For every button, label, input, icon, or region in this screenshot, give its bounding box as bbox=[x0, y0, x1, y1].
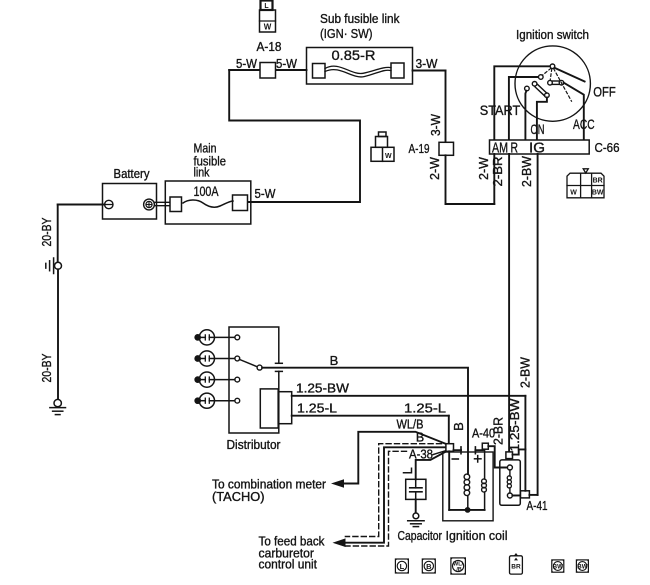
svg-text:Ignition switch: Ignition switch bbox=[516, 27, 589, 42]
wire-end symbol BW (left) bbox=[552, 560, 564, 572]
wire 2-W from A-19 down bbox=[445, 155, 447, 204]
svg-text:2-BW: 2-BW bbox=[518, 356, 533, 388]
svg-text:C-66: C-66 bbox=[595, 140, 620, 155]
wire-end symbol BW (right) bbox=[576, 560, 588, 572]
svg-text:W: W bbox=[570, 190, 577, 197]
body ground node (mid) bbox=[55, 262, 62, 269]
svg-text:100A: 100A bbox=[194, 183, 220, 199]
connector square on resistor top bbox=[506, 452, 513, 459]
ground node (capacitor) bbox=[413, 513, 419, 519]
wire battery negative to left bbox=[58, 204, 105, 206]
wire R contact bbox=[509, 77, 539, 140]
svg-text:BW: BW bbox=[592, 190, 604, 197]
svg-text:2-BW: 2-BW bbox=[519, 155, 534, 187]
svg-text:5-W: 5-W bbox=[276, 56, 298, 71]
resistor unit box bbox=[500, 460, 521, 505]
svg-text:3-W: 3-W bbox=[416, 56, 439, 71]
wire 1.25-BW down to A-41 bbox=[524, 396, 526, 491]
svg-text:1.25-L: 1.25-L bbox=[297, 401, 337, 416]
ignition switch OFF arm bbox=[554, 68, 584, 82]
svg-text:WL/B: WL/B bbox=[397, 417, 424, 432]
wire 5-W loop from A-18 down bbox=[229, 70, 360, 202]
dashed feedback wire (inner) bbox=[345, 451, 406, 546]
svg-text:5-W: 5-W bbox=[255, 186, 277, 201]
distributor box bbox=[229, 327, 279, 433]
svg-text:OFF: OFF bbox=[593, 84, 616, 100]
svg-text:W: W bbox=[264, 23, 272, 32]
wire-end symbol WL/B bbox=[451, 558, 466, 574]
svg-text:Ignition coil: Ignition coil bbox=[446, 528, 508, 543]
main fusible link box bbox=[165, 181, 251, 224]
wire 2-BW from IG down bbox=[537, 154, 539, 495]
svg-text:B: B bbox=[451, 422, 466, 431]
wire 2-W up to AM bbox=[493, 154, 495, 204]
coil negative terminal bbox=[454, 449, 462, 451]
coil secondary winding bbox=[484, 449, 486, 479]
contact circle START bottom bbox=[545, 93, 550, 98]
ignition coil box bbox=[443, 452, 493, 521]
svg-text:R: R bbox=[511, 140, 519, 157]
ground symbol (capacitor) bbox=[408, 520, 424, 522]
capacitor element bbox=[415, 479, 417, 488]
wire 20-BY down left side bbox=[57, 205, 59, 263]
resistor terminals bbox=[507, 465, 512, 470]
svg-text:L: L bbox=[264, 3, 269, 10]
connector A-18 inline square bbox=[260, 63, 276, 79]
capacitor feed wire bbox=[416, 452, 446, 480]
svg-text:1.25-L: 1.25-L bbox=[404, 401, 446, 416]
wire resistor bottom to A-41 bbox=[512, 494, 520, 496]
coil positive terminal bbox=[474, 447, 476, 454]
pickup connector box bbox=[278, 392, 292, 424]
wire AM feed bbox=[494, 66, 550, 140]
wire WL/B to combination meter bbox=[344, 432, 446, 484]
coil internal wire from A-38 junction bbox=[448, 451, 450, 510]
svg-text:START: START bbox=[480, 102, 521, 118]
svg-text:link: link bbox=[194, 165, 210, 180]
wire 20-BY lower bbox=[57, 269, 59, 399]
fusible link element (sub) bbox=[313, 64, 326, 79]
distributor rotor arm bbox=[239, 359, 257, 366]
svg-text:(IGN· SW): (IGN· SW) bbox=[320, 26, 373, 41]
spark plugs (4) bbox=[195, 330, 240, 409]
svg-text:B: B bbox=[330, 353, 339, 368]
dashed feedback inner tail to A-38 bbox=[433, 451, 446, 455]
svg-text:5-W: 5-W bbox=[236, 56, 258, 71]
svg-text:BR: BR bbox=[593, 177, 603, 184]
battery box bbox=[103, 184, 157, 220]
wire from aux contact down bbox=[525, 91, 526, 140]
wire 1.25-BW bbox=[292, 395, 526, 397]
svg-text:20-BY: 20-BY bbox=[39, 353, 54, 382]
wire ACC bbox=[564, 83, 584, 140]
svg-text:0.85-R: 0.85-R bbox=[332, 47, 376, 63]
svg-text:B: B bbox=[426, 562, 432, 571]
START contact bar bbox=[535, 87, 544, 96]
svg-text:BW: BW bbox=[577, 563, 587, 570]
ground symbol (mid, rotated) bbox=[53, 258, 55, 274]
svg-text:2-W: 2-W bbox=[427, 156, 442, 180]
dashed feedback wire (outer) bbox=[345, 444, 441, 537]
svg-text:3-W: 3-W bbox=[428, 113, 443, 136]
IG contact bar circles bbox=[548, 80, 553, 85]
connector A-41 bbox=[521, 491, 530, 498]
wire 5-W horizontal top bbox=[229, 69, 306, 71]
wire A-40 to resistor bbox=[488, 446, 507, 467]
connector A-19 inline square bbox=[439, 142, 454, 155]
svg-text:Distributor: Distributor bbox=[227, 437, 282, 452]
svg-text:2-W: 2-W bbox=[476, 156, 491, 180]
battery positive terminal bbox=[144, 199, 155, 210]
ignition switch body circle bbox=[515, 46, 590, 121]
polarity mark bbox=[404, 468, 412, 472]
wire 2-W horizontal to AM riser bbox=[446, 203, 495, 205]
svg-text:1.25-BW: 1.25-BW bbox=[296, 381, 350, 396]
sub fusible link box bbox=[307, 48, 413, 85]
svg-text:2-BR: 2-BR bbox=[490, 157, 505, 187]
connector C-66 terminal strip bbox=[490, 140, 590, 154]
wire vertical into A-19 bbox=[445, 71, 447, 143]
capacitor C box bbox=[406, 479, 426, 499]
svg-text:ACC: ACC bbox=[573, 116, 595, 132]
coil primary winding bbox=[467, 496, 469, 510]
connector A-40 bbox=[482, 443, 488, 449]
svg-text:B: B bbox=[416, 431, 424, 445]
resistor element bbox=[509, 470, 511, 476]
arrow to combination meter bbox=[331, 479, 344, 488]
contact circle START top bbox=[532, 82, 537, 87]
battery negative terminal bbox=[105, 200, 113, 208]
svg-text:20-BY: 20-BY bbox=[39, 217, 54, 246]
ground node (bottom) bbox=[54, 399, 61, 406]
wire battery to main fusible link (double) bbox=[155, 201, 171, 203]
wire-end symbol B bbox=[422, 559, 435, 573]
svg-text:A-41: A-41 bbox=[527, 498, 548, 513]
wire 1.25-L bbox=[292, 415, 449, 417]
wire-end symbol BR (keyed) bbox=[510, 553, 523, 574]
capacitor ground wire bbox=[415, 499, 417, 513]
svg-text:ON: ON bbox=[531, 121, 545, 137]
svg-text:BW: BW bbox=[553, 563, 563, 570]
svg-text:(TACHO): (TACHO) bbox=[212, 490, 265, 504]
svg-text:BR: BR bbox=[511, 564, 521, 571]
wire 1.25-L drop to A-38 bbox=[448, 416, 450, 444]
coil bottom rail bbox=[449, 509, 484, 511]
distributor edge crossing caps bbox=[276, 362, 283, 364]
wire-end symbol L bbox=[395, 559, 408, 573]
wire 3-W to ignition switch branch bbox=[413, 70, 446, 72]
connector A-19 pigtail symbol bbox=[371, 132, 394, 161]
svg-text:A-18: A-18 bbox=[257, 39, 282, 54]
contact circle R bbox=[539, 75, 544, 80]
svg-text:control unit: control unit bbox=[259, 558, 318, 572]
svg-text:Battery: Battery bbox=[114, 166, 150, 181]
svg-text:Capacitor: Capacitor bbox=[398, 528, 443, 543]
ground symbol (bottom) bbox=[50, 407, 66, 409]
coil common junction node bbox=[465, 507, 471, 513]
connector A-38 bbox=[446, 444, 454, 452]
feedback wire B (solid) bbox=[345, 447, 446, 542]
svg-text:A-19: A-19 bbox=[409, 141, 430, 156]
svg-text:Sub fusible link: Sub fusible link bbox=[320, 11, 400, 26]
svg-text:/B: /B bbox=[456, 567, 461, 573]
connector A-18 pigtail symbol bbox=[260, 1, 276, 33]
svg-text:L: L bbox=[400, 562, 405, 571]
ignition switch pivot contact bbox=[550, 64, 555, 69]
arrow to feed back carburetor control unit bbox=[333, 538, 346, 547]
contact circle AM-aux bbox=[525, 86, 530, 91]
dashed switch position rays bbox=[542, 68, 571, 101]
connector C-66 pin face diagram bbox=[567, 169, 604, 198]
wire 1.25-BW branch to resistor top bbox=[513, 449, 526, 454]
svg-text:A-40: A-40 bbox=[472, 426, 495, 441]
distributor pickup coil box bbox=[260, 389, 278, 428]
svg-text:1.25-BW: 1.25-BW bbox=[507, 398, 522, 452]
wire B from points bbox=[262, 368, 468, 474]
wire 2-BW into A-41 bbox=[529, 494, 537, 496]
IG contact bar bbox=[552, 80, 559, 82]
fusible link element (main) bbox=[170, 197, 182, 212]
svg-text:W: W bbox=[385, 153, 392, 160]
wire ON to IG terminal bbox=[537, 98, 547, 141]
